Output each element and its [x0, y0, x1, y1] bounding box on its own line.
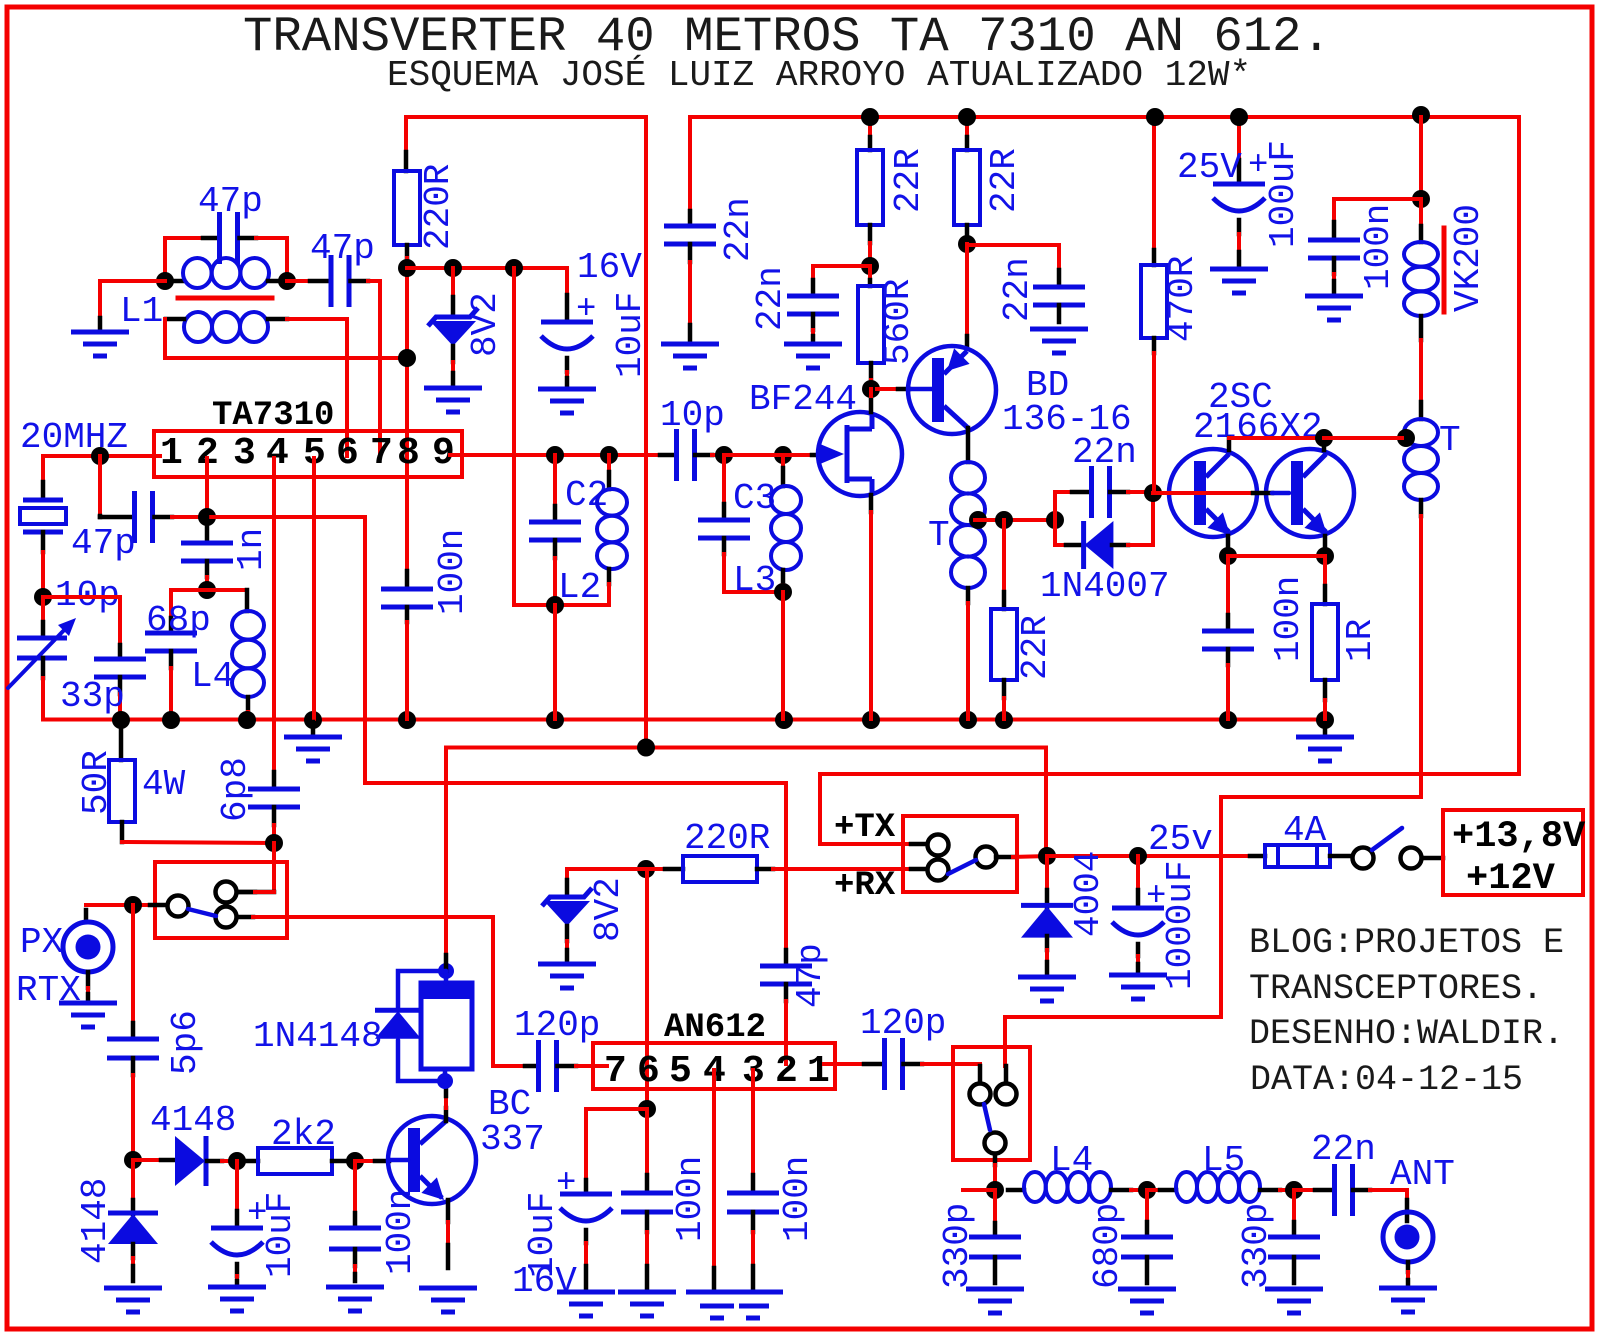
svg-text:22n: 22n [1072, 432, 1137, 473]
svg-text:2: 2 [775, 1050, 798, 1093]
node Q1 emitter [1219, 547, 1237, 565]
node Q2 emitter [1316, 547, 1334, 565]
wire T tap to bias network [975, 518, 1055, 522]
svg-text:337: 337 [480, 1119, 545, 1160]
inductor L5 (filter) [1147, 1188, 1160, 1192]
svg-text:3: 3 [233, 432, 256, 475]
wire VK200 to output transformer [1419, 340, 1423, 402]
node pin2/47p/1n [198, 508, 216, 526]
svg-text:6: 6 [336, 432, 359, 475]
svg-text:L3: L3 [733, 560, 776, 601]
node 2k2 left [228, 1152, 246, 1170]
svg-text:1000uF: 1000uF [1160, 860, 1201, 990]
svg-text:BF244: BF244 [749, 379, 857, 420]
svg-text:2166X2: 2166X2 [1193, 407, 1323, 448]
svg-text:4004: 4004 [1068, 851, 1109, 937]
capacitor 6p8 [272, 772, 277, 789]
svg-text:220R: 220R [418, 164, 459, 250]
node bus T coil [959, 711, 977, 729]
wire mid distribution line to 25v node [446, 748, 1046, 857]
wire to BF244 gate [724, 453, 812, 457]
wire T2 bottom to antenna relay feed [1005, 516, 1421, 1066]
capacitor 100n (VK200 node) [1334, 199, 1421, 222]
svg-text:6: 6 [637, 1050, 660, 1093]
svg-text:560R: 560R [878, 279, 919, 365]
capacitor 120p (pin1 output) [824, 1062, 864, 1066]
wire L1 left to ground [100, 281, 165, 318]
node 1000uF [1129, 847, 1147, 865]
node bus VK200 [1412, 106, 1430, 124]
ground (ANT) [1379, 1286, 1437, 1291]
svg-text:470R: 470R [1162, 256, 1203, 342]
svg-text:T: T [1439, 420, 1461, 461]
svg-text:AN612: AN612 [664, 1009, 766, 1047]
resistor 220R (AN612 supply) [646, 867, 665, 871]
node 4148 junction [124, 1151, 142, 1169]
ground (680p) [1118, 1287, 1176, 1292]
transformer L1 [166, 279, 184, 284]
node 4004/25v [1038, 847, 1056, 865]
svg-text:2k2: 2k2 [271, 1114, 336, 1155]
diode 1N4148 (relay) [398, 971, 446, 1008]
node bus 33p [112, 711, 130, 729]
wire pin1 input line [43, 454, 160, 458]
node bus 68p [162, 711, 180, 729]
zener diode 8V2 (AN612) [565, 880, 570, 897]
wire L5 to 330p [1280, 1188, 1294, 1192]
wire 2k2 to BC337 base [358, 1159, 375, 1163]
svg-text:50R: 50R [76, 750, 117, 815]
svg-text:TA7310: TA7310 [212, 397, 334, 435]
capacitor 33p [43, 597, 120, 645]
svg-text:220R: 220R [684, 818, 770, 859]
capacitor 100n (pin8) [405, 477, 409, 571]
wire base line [1153, 491, 1253, 495]
svg-text:4: 4 [266, 432, 289, 475]
svg-text:22n: 22n [718, 197, 759, 262]
node bus L4 [238, 711, 256, 729]
ground (1000uF) [1109, 973, 1167, 978]
svg-text:22R: 22R [984, 148, 1025, 213]
node C2 feed tap [505, 259, 523, 277]
wire supply node to 8V2 [567, 869, 646, 880]
svg-text:8: 8 [397, 432, 420, 475]
svg-text:PX: PX [20, 922, 63, 963]
node L2 top [600, 446, 618, 464]
wire emitters join [1226, 536, 1231, 556]
svg-text:DATA:04-12-15: DATA:04-12-15 [1250, 1060, 1523, 1100]
svg-text:100n: 100n [1358, 204, 1399, 290]
svg-text:+13,8V: +13,8V [1452, 816, 1586, 858]
switch box PX (antenna changeover) [155, 862, 287, 938]
wire Q1 collector to Q2 collector to T2 [1227, 438, 1232, 450]
node L3 top [774, 446, 792, 464]
capacitor 100uF 25V electrolytic [1237, 117, 1241, 160]
transistor 2SC2166 Q1 [1169, 449, 1257, 537]
ground (4004) [1018, 975, 1076, 980]
wire common to 25v node [1013, 856, 1047, 857]
svg-text:L5: L5 [1202, 1140, 1245, 1181]
node relay bottom [437, 1073, 453, 1089]
ground (BC337 emitter) [419, 1286, 477, 1291]
capacitor 5p6 [131, 905, 135, 1023]
wire top supply bus right segment [690, 115, 1519, 119]
power input box +13,8V +12V [1443, 810, 1583, 895]
node 560R top [861, 257, 879, 275]
inductor L4 (filter) [1008, 1188, 1024, 1193]
capacitor 10uF 16V (AN612) [586, 1109, 647, 1180]
node 10p/C3 [715, 446, 733, 464]
wire top supply bus left segment [406, 115, 646, 119]
switch box TX/RX [903, 816, 1017, 892]
node 220R bottom / 16V rail [398, 259, 416, 277]
IC TA7310 box [154, 431, 462, 477]
node L3 bottom [774, 583, 792, 601]
svg-text:6p8: 6p8 [215, 757, 256, 822]
ground (10uF delay) [208, 1285, 266, 1290]
diode 4148 (to ground) [131, 1160, 135, 1200]
svg-text:8V2: 8V2 [465, 292, 506, 357]
resistor 22R (drain supply) [868, 117, 872, 137]
node 2k2 right [346, 1152, 364, 1170]
svg-text:L1: L1 [120, 291, 163, 332]
node bus 1R [1316, 711, 1334, 729]
svg-text:25v: 25v [1148, 819, 1213, 860]
node 1n bottom [198, 581, 216, 599]
svg-text:+12V: +12V [1466, 858, 1556, 900]
svg-text:4W: 4W [142, 764, 186, 805]
wire L1 secondary left to pin8 node [165, 319, 405, 358]
svg-text:22n: 22n [1311, 1129, 1376, 1170]
capacitor 100n (pin6) [645, 1109, 649, 1175]
svg-text:120p: 120p [860, 1003, 946, 1044]
node AN612 pin6 decoupling [638, 1100, 656, 1118]
svg-text:22n: 22n [997, 257, 1038, 322]
node 1N4007 left [1046, 511, 1064, 529]
ground (pin4 and pin3 shared) [686, 1290, 783, 1295]
node mid distribution [637, 739, 655, 757]
capacitor 68p [171, 590, 207, 618]
svg-text:25V: 25V [1177, 147, 1242, 188]
svg-text:20MHZ: 20MHZ [20, 417, 128, 458]
capacitor 10p (coupling to BF244) [660, 453, 676, 458]
svg-text:1: 1 [160, 432, 183, 475]
wire 25v line [1047, 854, 1250, 858]
svg-text:100uF: 100uF [1263, 140, 1304, 248]
inductor L2 [607, 455, 611, 472]
node tank bottom [546, 596, 564, 614]
resistor 50R 4W [119, 722, 124, 760]
node bus pin5 [304, 711, 322, 729]
svg-text:7: 7 [604, 1050, 627, 1093]
node relay top [438, 963, 454, 979]
svg-text:10uF: 10uF [260, 1192, 301, 1278]
capacitor 47p (AN612 pin2 feed) [784, 783, 788, 950]
svg-text:47p: 47p [310, 228, 375, 269]
node bus 22R emitter [995, 711, 1013, 729]
svg-text:1R: 1R [1340, 619, 1381, 662]
wire RX signal line to AN612 pin7 [253, 917, 525, 1066]
wire upper contact to 6p8 node [255, 890, 274, 894]
connector ANT [1405, 1200, 1410, 1221]
wire PX common [86, 903, 150, 907]
node 6p8/50R [265, 834, 283, 852]
wire L1 secondary right to pin6 [287, 319, 347, 456]
node 22R3 top [995, 511, 1013, 529]
node AN612 supply [637, 860, 655, 878]
svg-text:ESQUEMA JOSÉ LUIZ ARROYO ATUAL: ESQUEMA JOSÉ LUIZ ARROYO ATUALIZADO 12W* [387, 54, 1251, 96]
svg-text:120p: 120p [514, 1005, 600, 1046]
node T2 tap [1397, 429, 1415, 447]
wire BC337 emitter to ground [446, 1200, 451, 1222]
svg-text:1N4007: 1N4007 [1040, 566, 1170, 607]
capacitor 47p (L1 to pin7) [287, 279, 310, 283]
svg-text:16V: 16V [577, 247, 642, 288]
ground (L1 left) [71, 330, 129, 335]
power switch [1330, 854, 1352, 859]
resistor 22R (emitter) [1002, 520, 1006, 592]
svg-text:1n: 1n [231, 528, 272, 571]
svg-text:10p: 10p [660, 395, 725, 436]
svg-text:L2: L2 [558, 567, 601, 608]
wire BF244 source to bus [869, 512, 873, 719]
capacitor C2 [553, 455, 557, 506]
ground (8V2 AN612) [538, 962, 596, 967]
variable capacitor 10p [41, 597, 45, 622]
ground (bus center) [311, 722, 316, 737]
resistor 2k2 [243, 1159, 258, 1164]
svg-text:16V: 16V [512, 1261, 577, 1302]
ground (10uF) [538, 387, 596, 392]
svg-text:5: 5 [669, 1050, 692, 1093]
ground (330p 2) [1265, 1287, 1323, 1292]
svg-text:100n: 100n [432, 529, 473, 615]
capacitor 22n (parallel 1N4007) [1055, 492, 1072, 520]
svg-text:1: 1 [807, 1050, 830, 1093]
svg-text:100n: 100n [670, 1156, 711, 1242]
wire 47p to pin7 [368, 281, 380, 456]
crystal 20MHZ [41, 456, 45, 482]
transistor 2SC2166 Q2 [1266, 449, 1354, 537]
node VK200 top [1412, 190, 1430, 208]
inductor L3 [781, 455, 785, 468]
capacitor 680p [1145, 1190, 1149, 1222]
svg-text:4148: 4148 [75, 1178, 116, 1264]
svg-text:8V2: 8V2 [588, 877, 629, 942]
node PX/5p6 [124, 896, 142, 914]
node C2 top [546, 446, 564, 464]
node pin8 / L1 secondary [398, 349, 416, 367]
node bus L3 [775, 711, 793, 729]
node T tap [969, 511, 987, 529]
ground (10uF AN612) [557, 1290, 615, 1295]
svg-text:47p: 47p [198, 181, 263, 222]
wire 220R right to RX contact and 47p node [773, 867, 911, 871]
node bus C2/L2 [546, 711, 564, 729]
ground (22n gate) [784, 342, 842, 347]
wire 50R to 6p8 node [122, 842, 274, 843]
wire tank bottom to bus [553, 605, 557, 719]
svg-text:22R: 22R [888, 148, 929, 213]
transistor BC337 NPN [388, 1116, 476, 1204]
ground (22n BD136) [1030, 327, 1088, 332]
ground (22n) [661, 342, 719, 347]
wire pin2 down [205, 458, 209, 517]
svg-text:100n: 100n [777, 1156, 818, 1242]
ground (100n pin6) [618, 1290, 676, 1295]
node bus pin8-100n [398, 711, 416, 729]
capacitor 100n (BC337 base) [353, 1161, 357, 1213]
wire pin4 to ground [712, 1070, 716, 1268]
node 22R2 bottom [958, 235, 976, 253]
wire 16V to tank bottom [514, 268, 555, 605]
switch contacts [168, 896, 189, 917]
wire L3 bottom to bus [781, 592, 785, 719]
relay contacts [970, 1084, 991, 1105]
wire BC337 collector to relay [444, 1108, 449, 1121]
node 2SC base [1144, 484, 1162, 502]
IC AN612 box [593, 1043, 835, 1089]
diode 4004 (polarity guard) [1045, 856, 1049, 890]
svg-text:ANT: ANT [1390, 1154, 1455, 1195]
node bus 100n [1219, 711, 1237, 729]
wire bus to VK200/100n node [1419, 117, 1423, 199]
resistor 560R [868, 266, 872, 280]
wire node into PX switch [272, 843, 276, 892]
capacitor 22n (pin9 area decoupling) [688, 117, 692, 211]
resistor 470R [1152, 117, 1156, 250]
zener diode 8V2 (16V rail) [451, 268, 455, 297]
node bus BF244 source [862, 711, 880, 729]
node bus 22R [861, 108, 879, 126]
ground (PX) [59, 1001, 117, 1006]
transistor BF244 JFET [818, 412, 902, 496]
svg-text:L4: L4 [1050, 1140, 1093, 1181]
wire pin5 to bus [312, 458, 316, 719]
inductor VK200 choke [1419, 199, 1423, 226]
relay coil [421, 983, 472, 1069]
capacitor 22n (antenna) [1294, 1188, 1315, 1192]
wire right-side rail from top bus down and across (25V feed to TX switch) [820, 117, 1519, 844]
wire pin9 output line [450, 453, 660, 457]
svg-text:47p: 47p [790, 943, 831, 1008]
node BF244 drain / BD136 base [862, 380, 880, 398]
wire AN612 pin6 supply vertical [645, 869, 649, 1109]
node 680p [1138, 1181, 1156, 1199]
svg-text:+: + [576, 291, 596, 329]
svg-text:330p: 330p [937, 1203, 978, 1289]
svg-text:7: 7 [370, 432, 393, 475]
node bus 22R2 [958, 108, 976, 126]
resistor 1R [1323, 556, 1327, 586]
node crystal bottom [34, 588, 52, 606]
capacitor 22n (gate decoupling) [813, 266, 870, 280]
svg-text:TRANSCEPTORES.: TRANSCEPTORES. [1249, 969, 1543, 1009]
inductor T (emitter choke with tap) [966, 428, 971, 462]
svg-text:+TX: +TX [834, 809, 896, 847]
capacitor 330p (2) [1292, 1190, 1296, 1222]
ground (100uF 25V) [1210, 267, 1268, 272]
node antenna filter input [986, 1181, 1004, 1199]
svg-text:22n: 22n [750, 266, 791, 331]
ground (4148) [104, 1286, 162, 1291]
capacitor 47p (top, across L1 primary) [165, 238, 203, 281]
switch box antenna relay [953, 1047, 1030, 1160]
svg-text:L4: L4 [191, 656, 234, 697]
wire pin4 down [272, 458, 276, 772]
capacitor 1n [205, 517, 210, 543]
ground (8V2) [424, 386, 482, 391]
connector PX RTX [84, 910, 89, 922]
switch contacts TX/RX [928, 835, 949, 856]
wire L4 to 680p [1131, 1188, 1147, 1192]
diode 1N4007 [1055, 520, 1066, 545]
transistor BD136-16 PNP [965, 244, 969, 336]
ground (100n VK200) [1305, 294, 1363, 299]
svg-text:BLOG:PROJETOS E: BLOG:PROJETOS E [1249, 923, 1564, 963]
diode 4148 (horizontal) [133, 1158, 161, 1162]
svg-text:1N4148: 1N4148 [253, 1016, 383, 1057]
capacitor 330p (1) [993, 1194, 997, 1223]
capacitor 120p (pin7) [525, 1064, 538, 1069]
wire 220R bottom to pin8 and node [405, 258, 409, 477]
svg-text:DESENHO:WALDIR.: DESENHO:WALDIR. [1249, 1014, 1564, 1054]
node bus 100uF [1230, 108, 1248, 126]
node crystal/47p [91, 447, 109, 465]
capacitor 100n (pin3) [751, 1070, 755, 1175]
fuse 4A [1250, 854, 1265, 859]
inductor T (output autotransformer) [1419, 402, 1424, 419]
wire pin2 node to AN612 supply line [207, 517, 786, 783]
ground (bus right at 1R) [1323, 722, 1328, 737]
wire relay coil feed [444, 748, 448, 956]
svg-text:47p: 47p [71, 523, 136, 564]
svg-text:T: T [928, 515, 950, 556]
wire relay output [993, 1165, 997, 1190]
ground (330p 1) [966, 1287, 1024, 1292]
resistor 22R (BD136 collector supply) [965, 117, 969, 137]
svg-text:330p: 330p [1236, 1203, 1277, 1289]
capacitor 10uF 16V electrolytic [565, 295, 570, 322]
wire 16V rail [407, 268, 567, 295]
wire drain node to BD136 base [877, 387, 898, 391]
capacitor 1000uF electrolytic [1136, 856, 1140, 890]
node 330p 2 [1285, 1181, 1303, 1199]
svg-text:5p6: 5p6 [165, 1010, 206, 1075]
capacitor C3 [722, 455, 726, 504]
capacitor 10uF (delay) [235, 1161, 239, 1211]
svg-text:22R: 22R [1015, 615, 1056, 680]
wire long vertical from bus to mid distribution node [644, 117, 648, 748]
svg-text:+RX: +RX [834, 867, 896, 905]
capacitor 100n (emitter) [1226, 556, 1230, 615]
svg-text:4A: 4A [1283, 810, 1327, 851]
node L1 primary right [278, 272, 296, 290]
svg-text:33p: 33p [60, 676, 125, 717]
svg-text:10uF: 10uF [610, 292, 651, 378]
node L1 primary left [156, 272, 174, 290]
svg-text:VK200: VK200 [1448, 204, 1489, 312]
inductor L4 (oscillator) [207, 588, 247, 592]
capacitor 22n (BD136 collector decoupling) [967, 245, 1059, 270]
wire main ground bus [43, 718, 1327, 722]
ground (100n BC337) [326, 1285, 384, 1290]
svg-text:100n: 100n [1268, 576, 1309, 662]
capacitor 47p (crystal to pin2) [98, 456, 102, 517]
svg-text:680p: 680p [1087, 1203, 1128, 1289]
node 8V2 tap [444, 259, 462, 277]
node bus 470R [1146, 108, 1164, 126]
